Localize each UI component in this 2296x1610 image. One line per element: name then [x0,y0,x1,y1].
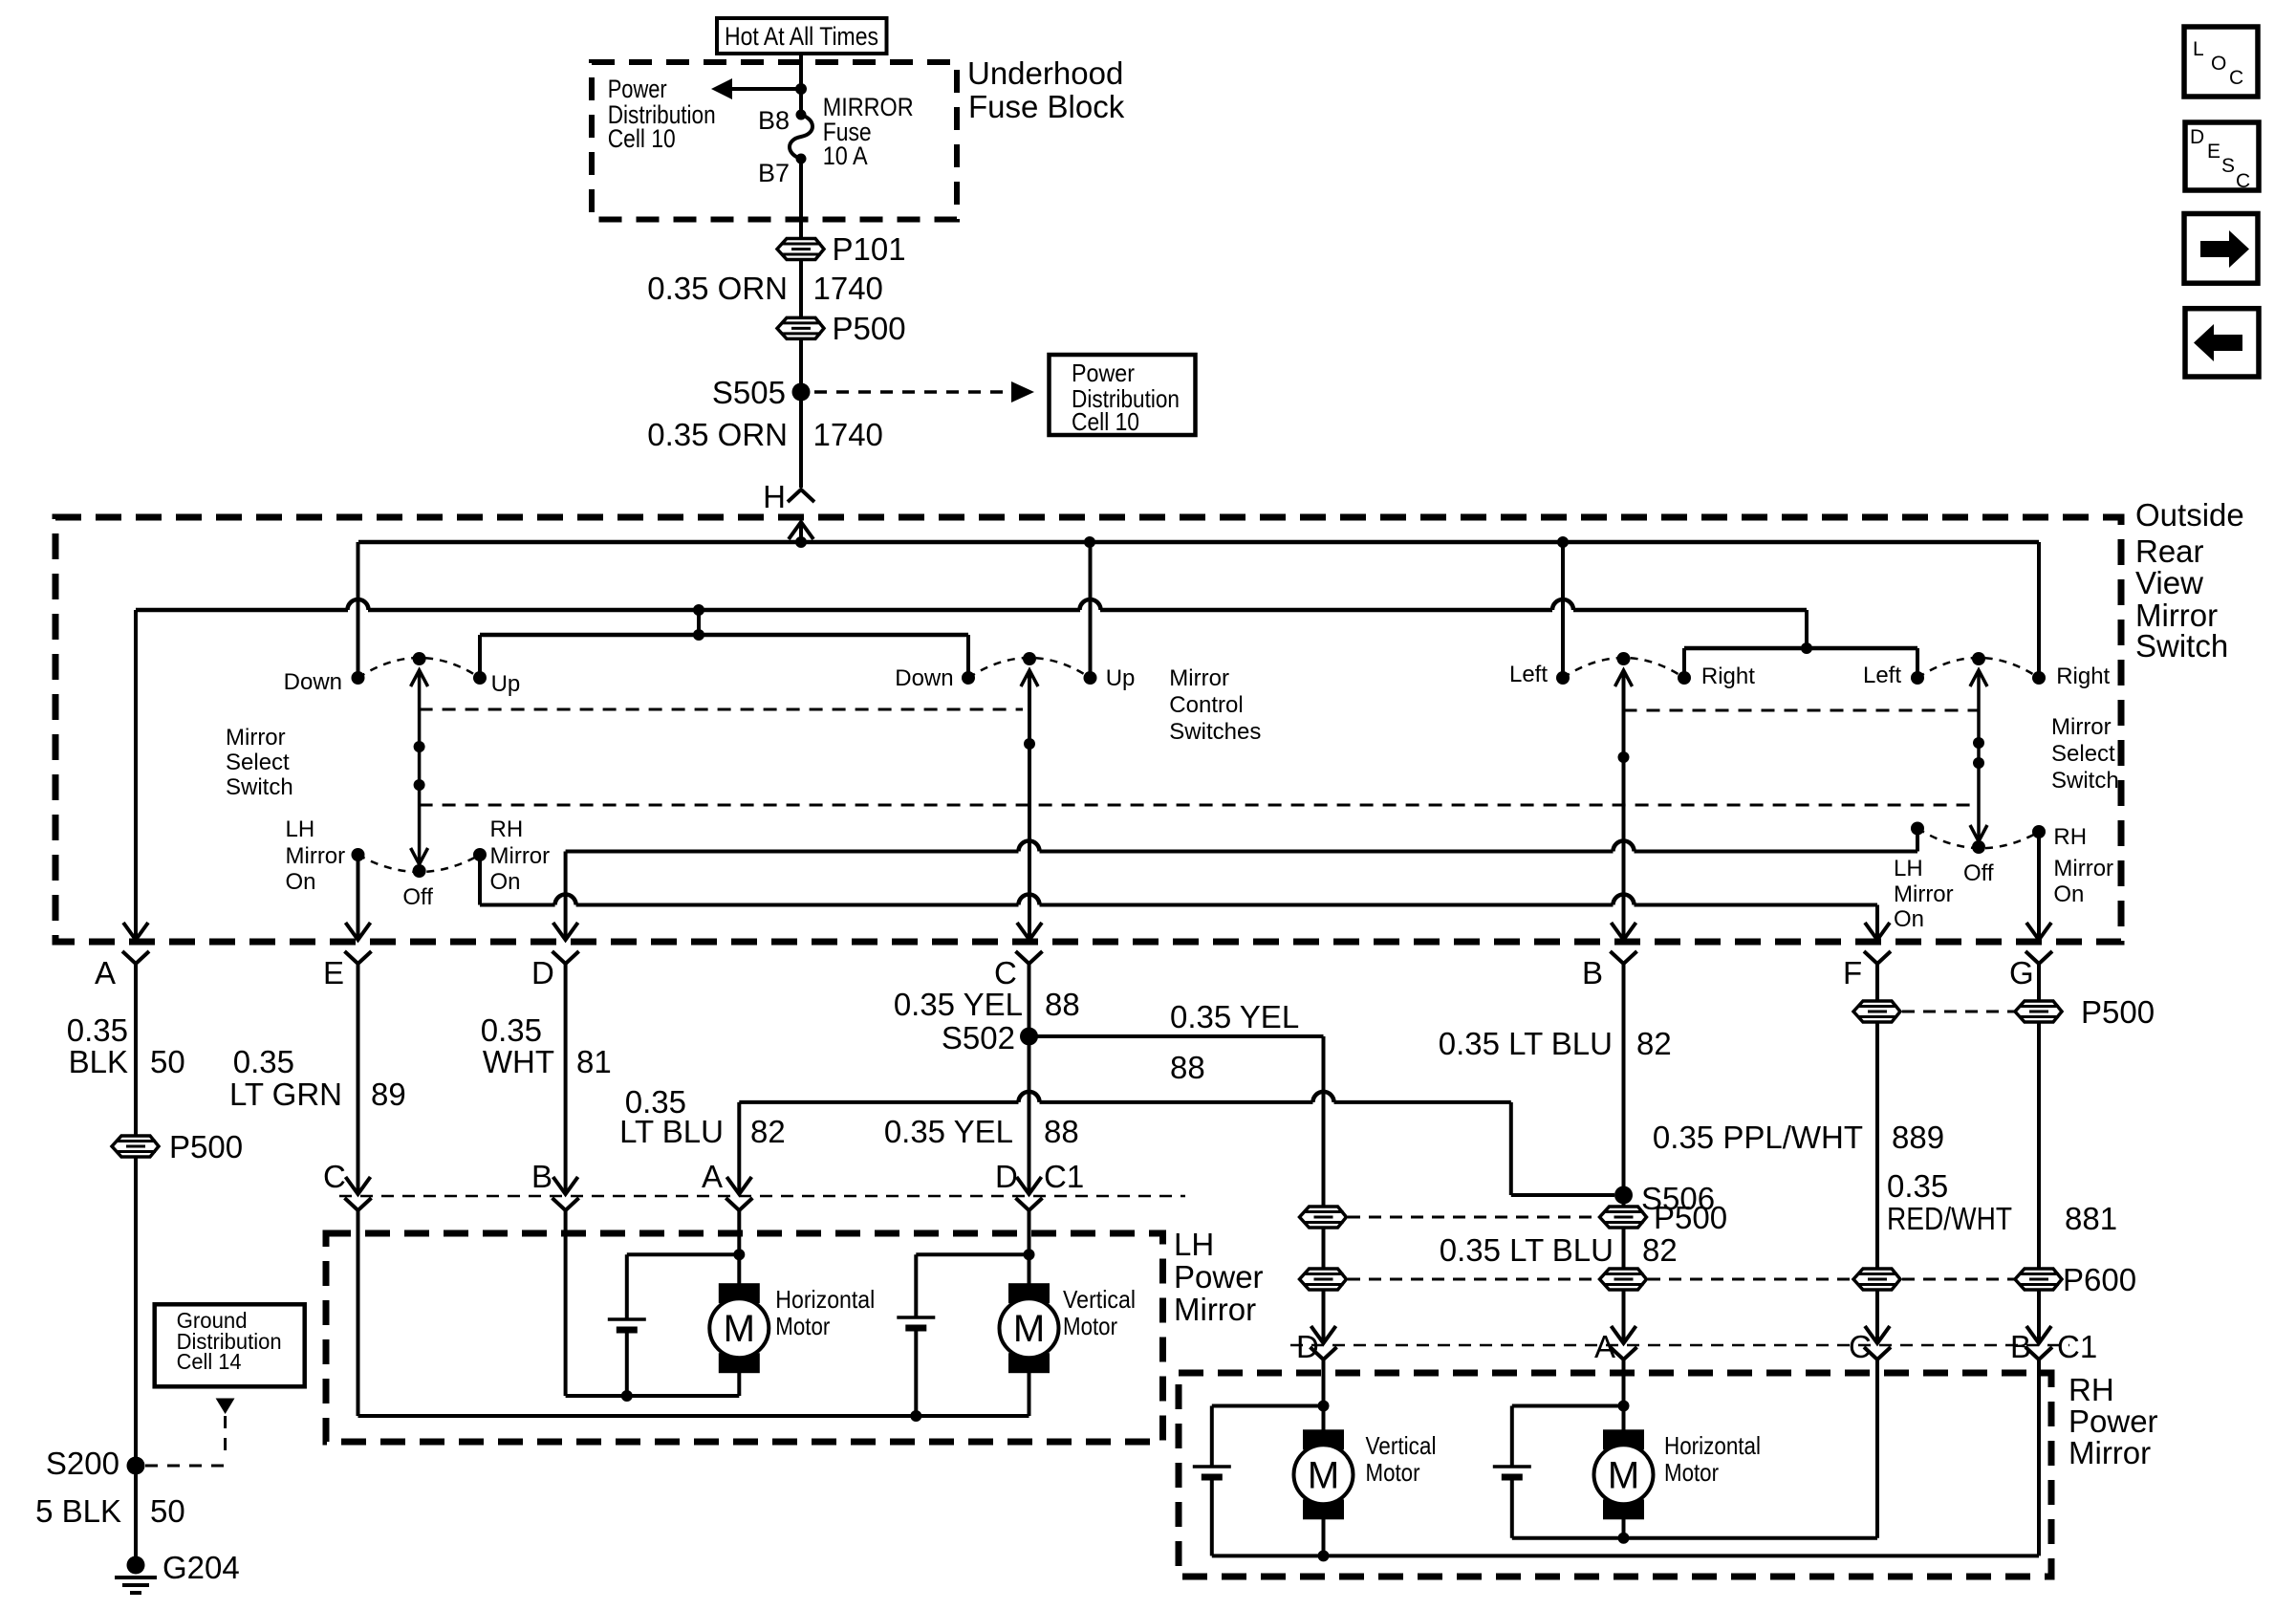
arrowhead at LH mirror pin A [726,1177,751,1194]
svg-text:E: E [2207,141,2220,163]
wire: supply rail right end down to Right terminal (sw4) [2037,542,2041,678]
svg-text:Underhood: Underhood [967,55,1123,91]
wire: RH pin D into box to vertical motor [1322,1360,1326,1430]
wire: LH mirror pin A riser [737,1102,741,1194]
svg-text:S505: S505 [712,375,786,410]
switch 2 dashed contact arc [968,658,1091,678]
motor circle RH vertical [1294,1445,1354,1504]
svg-text:Fuse Block: Fuse Block [968,89,1125,124]
switch 3 dashed contact arc [1563,658,1684,678]
node: junction on feed at branch [795,83,807,95]
power feed label box: Hot At All Times [717,18,887,54]
svg-text:S200: S200 [46,1446,119,1481]
svg-text:50: 50 [150,1493,185,1529]
svg-text:Power: Power [2069,1403,2158,1439]
svg-text:0.35 PPL/WHT: 0.35 PPL/WHT [1653,1120,1863,1155]
svg-text:Horizontal: Horizontal [1664,1431,1761,1460]
wire: RH battery2 bottom lead [1510,1477,1514,1538]
connector P500 on RH-D wire [1300,1207,1347,1228]
svg-text:P101: P101 [833,231,906,267]
wire: 5 BLK 50 from S200 to ground G204 [134,1466,138,1565]
svg-text:S: S [2221,155,2235,177]
svg-text:Mirror: Mirror [286,843,346,869]
svg-text:Cell 10: Cell 10 [1072,407,1139,436]
wire: riser supply rail down to Left terminal (sw3) [1561,542,1565,678]
wire: link bus down to Right terminal (sw3) [1682,648,1686,678]
switch 1 Off contact [413,864,426,878]
node: junction second rail to link bus [693,629,704,641]
wire: RH bottom bus (battery1 to pin B lead) [1212,1554,2039,1557]
node: junction supply to Up (control sw 2) [1084,536,1095,548]
node: RH vertical motor bottom junction [1318,1550,1330,1561]
wire: branch to LH battery2 top [916,1252,1029,1256]
switch 4 LH Mirror On terminal [1911,822,1924,836]
wire: D-line from pin D corner to LH Mirror On (sw4) [566,850,1019,854]
wire: F lead 0.35 PPL/WHT 889 from P500 to P600 [1875,1022,1879,1269]
node: shaft dot a (sw4) [1973,737,1984,749]
wire: pin C lead 0.35 YEL 88 down to splice S502 [1028,964,1031,1036]
svg-text:0.35 ORN: 0.35 ORN [647,417,788,452]
svg-text:P500: P500 [2081,994,2155,1030]
arrowhead at LH mirror pin B [553,1177,578,1194]
battery sensor RH horizontal [1493,1465,1531,1469]
svg-text:Right: Right [1701,664,1755,689]
svg-text:Up: Up [491,671,521,697]
wire segment 0.35 ORN 1740 (S505 to switch pin H) [799,392,803,488]
svg-text:G204: G204 [162,1550,240,1585]
wire: pin G lead down to P500 [2037,964,2041,1001]
switch 4 dashed contact arc [1917,658,2039,678]
svg-text:On: On [490,869,521,895]
arrowhead at pin A exit [123,923,148,940]
wire: S502 down to LH mirror pin D [1028,1036,1031,1194]
svg-text:Switches: Switches [1169,719,1261,745]
switch 1 actuator shaft double arrow [418,672,422,862]
svg-text:P600: P600 [2063,1262,2136,1297]
svg-text:Switch: Switch [2135,628,2228,664]
svg-text:On: On [2053,881,2084,907]
svg-text:A: A [702,1159,723,1194]
svg-text:RED/WHT: RED/WHT [1887,1201,2012,1236]
fuse F: MIRROR Fuse 10 A (between pins B8 and B7) [796,110,807,120]
wire: branch to RH battery1 top [1212,1404,1324,1408]
node: shaft dot b (sw1) [414,779,425,791]
switch 4 Left terminal [1911,671,1924,685]
motor body blocks RH vertical [1303,1429,1344,1449]
dashed gang link line lower (sw1-sw4) [420,804,1979,807]
wire: pin A riser down from second rail [134,610,138,940]
svg-text:View: View [2135,565,2203,600]
svg-text:On: On [286,869,316,895]
connector chevron at switch pin C [1016,951,1043,964]
svg-text:P500: P500 [833,311,906,346]
wire: LH vertical motor bottom lead [1028,1373,1031,1416]
switch 1 lower dashed contact arc [358,855,481,872]
svg-text:C: C [994,955,1017,990]
wire: RH vertical motor bottom lead [1322,1519,1326,1556]
wire: fuse B7 down to connector P101 [799,159,803,239]
splice S506 [1614,1186,1633,1205]
bus wire: link Right(sw3) to Left(sw4) [1684,646,1917,651]
svg-text:C: C [1849,1329,1872,1364]
wire: second rail down to junction on link bus (right) [1805,610,1809,648]
svg-text:89: 89 [371,1077,406,1112]
svg-text:RH: RH [2069,1372,2114,1407]
svg-text:Switch: Switch [2051,768,2119,794]
svg-text:LH: LH [1174,1227,1214,1262]
switch 1 dashed contact arc [358,658,481,678]
switch 1 RH Mirror On terminal [473,848,487,861]
switch 2 pivot contact [1023,652,1036,665]
wire: F-line from RH Mirror On (sw1) to pin F corner [480,903,555,907]
node: LH horizontal motor feed junction [733,1249,745,1260]
svg-text:M: M [1608,1454,1639,1496]
svg-text:P500: P500 [1654,1200,1727,1235]
connector P600 on RH-B wire [2015,1269,2062,1290]
svg-text:81: 81 [576,1044,612,1079]
wire: RH Mirror On (sw4) down to pin G [2037,832,2041,940]
wire: pin B lead 0.35 LT BLU 82 down to S506 [1622,964,1626,1217]
svg-text:1740: 1740 [813,417,883,452]
svg-text:82: 82 [1642,1232,1678,1268]
wire: LH pin B into box down to horizontal motor bus [564,1210,568,1396]
svg-text:LT BLU: LT BLU [619,1114,724,1149]
reference box: Power Distribution Cell 10 [1050,355,1196,435]
splice S200 [127,1457,145,1475]
switch 4 lower dashed contact arc [1917,829,2039,849]
arrowhead at RH mirror pin C [1865,1326,1890,1343]
svg-text:0.35: 0.35 [481,1012,542,1048]
wire: RH horizontal motor bottom lead [1622,1519,1626,1538]
svg-text:Outside: Outside [2135,497,2244,533]
splice S502 [1020,1028,1038,1046]
bus wire: link Up(sw1) to Down(sw2) [480,633,968,638]
svg-text:Select: Select [2051,741,2115,767]
svg-text:Down: Down [284,669,342,695]
dashed reference arrow from S505 to Power Distribution Cell 10 [814,390,1009,394]
battery sensor LH horizontal [608,1317,646,1321]
wire: LT BLU link from LH mirror pin A to S506 [739,1100,1018,1104]
wire: LH pin A into box to horizontal motor [737,1210,741,1284]
wire: branch to LH battery1 top [627,1252,740,1256]
svg-text:Vertical: Vertical [1063,1285,1136,1314]
switch 1 Up terminal [473,671,487,685]
connector chevron at switch pin B [1611,951,1637,964]
connector P600 on RH-C wire [1853,1269,1900,1290]
switch 2 Down terminal [962,671,975,685]
svg-text:D: D [1296,1329,1319,1364]
svg-text:Mirror: Mirror [1894,881,1954,907]
svg-text:Motor: Motor [775,1312,830,1340]
svg-text:88: 88 [1170,1050,1205,1085]
svg-text:M: M [1013,1308,1045,1350]
svg-text:M: M [724,1308,755,1350]
svg-text:B: B [2010,1329,2031,1364]
svg-text:5 BLK: 5 BLK [35,1493,121,1529]
svg-text:Mirror: Mirror [226,725,286,751]
switch 1 Down terminal [352,671,365,685]
bus wire: supply rail from pin H (upper) [358,540,2039,545]
svg-text:Power: Power [1072,359,1135,387]
svg-text:LT GRN: LT GRN [229,1077,342,1112]
arrowhead at pin B exit [1612,923,1636,940]
arrowhead at pin C exit [1017,923,1042,940]
arrowhead at LH mirror pin D [1017,1177,1042,1194]
battery sensor LH vertical [897,1316,935,1319]
motor circle LH horizontal [709,1298,769,1358]
svg-text:0.35 YEL: 0.35 YEL [1170,999,1299,1034]
svg-text:C: C [2229,67,2243,89]
arrowhead at RH mirror pin B [2026,1326,2051,1343]
arrowhead entering switch at H [789,522,813,539]
connector chevron at LH mirror pin B [552,1198,579,1210]
arrowhead at RH mirror pin A [1612,1326,1636,1343]
svg-text:50: 50 [150,1044,185,1079]
motor body blocks LH vertical [1008,1283,1050,1303]
wire: LH pin D into box to vertical motor [1028,1210,1031,1284]
svg-text:Power: Power [1174,1259,1264,1295]
svg-text:88: 88 [1044,1114,1079,1149]
connector chevron at LH mirror pin A [726,1198,752,1210]
svg-text:Mirror: Mirror [1169,665,1229,691]
wire: pin F lead down to P500 [1875,964,1879,1001]
svg-text:A: A [1594,1329,1615,1364]
svg-text:B8: B8 [758,106,790,135]
wire: RH Mirror On down to F-line [478,855,482,905]
svg-text:889: 889 [1892,1120,1944,1155]
wire: LH horizontal motor bottom lead [737,1373,741,1396]
svg-text:RH: RH [2053,824,2087,850]
svg-text:Switch: Switch [226,774,293,800]
switch 3 Right terminal [1678,671,1691,685]
svg-text:1740: 1740 [813,271,883,306]
svg-text:LH: LH [286,816,315,842]
legend box LOC [2184,27,2258,97]
node: LH battery1 bottom junction [621,1390,633,1402]
svg-text:10 A: 10 A [823,141,868,170]
svg-text:A: A [95,955,116,990]
wire: LH horizontal motor bottom bus [566,1394,740,1398]
svg-text:D: D [995,1159,1018,1194]
battery sensor RH vertical [1193,1465,1231,1469]
dashed gang link line sw3-sw4 [1624,709,1980,712]
svg-text:Cell 14: Cell 14 [177,1349,242,1374]
svg-text:E: E [323,955,344,990]
connector P500 on RH-A wire [1600,1207,1647,1228]
legend box DESC [2185,122,2259,190]
svg-text:Hot At All Times: Hot At All Times [725,22,878,51]
svg-text:88: 88 [1045,987,1080,1022]
splice S505 [792,383,811,402]
node: RH vertical motor feed junction [1318,1401,1330,1412]
wire: Hot At All Times feed down into fuse block [799,54,803,115]
svg-text:C: C [2236,170,2250,192]
svg-text:D: D [531,955,554,990]
connector chevron at RH mirror pin D [1310,1347,1337,1360]
svg-text:Off: Off [1963,860,1994,886]
switch 4 Off contact [1972,840,1985,854]
svg-text:82: 82 [1636,1026,1672,1061]
wire segment 0.35 ORN 1740 (P101 to P500) [799,259,803,318]
svg-text:Motor: Motor [1366,1458,1420,1487]
svg-text:Up: Up [1106,665,1136,691]
dashed connector link P500 (D-A) [1348,1216,1598,1219]
wire: branch arrow to Power Distribution Cell 10 [732,87,801,91]
Outside Rear View Mirror Switch dashed outline [55,517,2121,942]
arrowhead at RH mirror pin D [1311,1326,1336,1343]
svg-text:Motor: Motor [1664,1458,1719,1487]
connector P600 on RH-A wire [1600,1269,1647,1290]
svg-text:B7: B7 [758,159,790,187]
svg-text:Select: Select [226,750,290,775]
wire: LH battery1 bottom lead [625,1330,629,1396]
connector chevron at switch pin G [2025,951,2052,964]
svg-text:C1: C1 [1044,1159,1084,1194]
wire: riser supply rail down to Up terminal (sw2) [1089,542,1093,678]
motor circle LH vertical [1000,1298,1059,1358]
switch 3 Left terminal [1556,671,1570,685]
node: H feed junction on supply rail [795,536,807,548]
switch 4 pivot contact [1972,652,1985,665]
svg-text:S502: S502 [942,1020,1015,1055]
arrowhead at LH mirror pin C [346,1177,371,1194]
connector P500 on ground lead [112,1136,159,1157]
ground G204 [127,1556,145,1575]
svg-text:82: 82 [750,1114,786,1149]
wire: P500 down to splice S505 [799,338,803,392]
wire: RH pin C into box down to mid bus [1875,1360,1879,1538]
connector chevron at RH mirror pin B [2025,1347,2052,1360]
node: shaft dot (sw2) [1024,738,1035,750]
switch 1 LH Mirror On terminal [352,848,365,861]
dashed connector link P500 (F-G) [1902,1011,2014,1013]
node: junction on right link bus [1801,642,1812,654]
connector chevron at switch pin D [552,951,579,964]
svg-text:Left: Left [1509,662,1548,687]
wire: RH mid bus (battery2 to pin C lead) [1512,1536,1877,1540]
connector P101 (in-line) [777,239,824,260]
switch 1 pivot contact [413,652,426,665]
connector chevron at LH mirror pin C [345,1198,372,1210]
wire: RH battery1 bottom lead [1210,1477,1214,1556]
svg-text:0.35 LT BLU: 0.35 LT BLU [1439,1026,1613,1061]
svg-text:Cell 10: Cell 10 [608,124,676,153]
svg-text:LH: LH [1894,856,1923,881]
svg-text:Vertical: Vertical [1366,1431,1437,1460]
svg-text:Down: Down [895,665,953,691]
dashed gang link line sw1-sw2 [420,708,1023,711]
svg-text:Horizontal: Horizontal [775,1285,875,1314]
svg-text:C: C [323,1159,346,1194]
svg-text:0.35 YEL: 0.35 YEL [894,987,1023,1022]
wire: RH-D lead between P500 and P600 [1322,1228,1326,1269]
svg-text:0.35 LT BLU: 0.35 LT BLU [1440,1232,1614,1268]
switch 2 common shaft with arrow (wire to pin C) [1021,670,1038,686]
connector chevron at switch pin H [788,490,814,502]
wire: LH pin C into box down to common bus [357,1210,360,1416]
dashed connector link P600 [1348,1278,1598,1281]
svg-text:Right: Right [2056,664,2110,689]
connector P500 on F wire [1853,1001,1900,1022]
svg-text:C1: C1 [2057,1329,2097,1364]
svg-text:0.35 YEL: 0.35 YEL [884,1114,1013,1149]
switch 4 RH Mirror On terminal [2032,825,2046,838]
node: RH horizontal motor feed junction [1618,1401,1630,1412]
wire: RH-A lead between P500 and P600 [1622,1228,1626,1269]
motor circle RH horizontal [1594,1445,1654,1504]
svg-text:Mirror: Mirror [490,843,551,869]
svg-text:WHT: WHT [483,1044,554,1079]
wire: pin D lead 0.35 WHT 81 down to LH mirror pin B [564,964,568,1194]
svg-text:BLK: BLK [69,1044,128,1079]
wire: YEL jumper from S502 to RH mirror D lead [1029,1034,1324,1038]
svg-text:H: H [763,479,786,514]
svg-text:Off: Off [402,884,433,910]
node: shaft dot b (sw4) [1973,757,1984,769]
switch 3 common shaft with arrow (wire to pin B) [1615,670,1633,686]
node: LH vertical motor feed junction [1024,1249,1035,1260]
node: junction supply to Left (control sw 3) [1557,536,1569,548]
svg-text:Left: Left [1863,663,1901,688]
connector chevron at LH mirror pin D [1016,1198,1043,1210]
node: shaft dot a (sw1) [414,741,425,752]
LH Power Mirror dashed outline [326,1233,1163,1442]
bus wire: second rail (pin A rail) [136,608,348,613]
svg-text:RH: RH [490,816,524,842]
connector chevron at switch pin E [345,951,372,964]
switch 3 pivot contact [1617,652,1631,665]
motor body blocks LH horizontal [719,1283,760,1303]
motor body blocks RH horizontal [1603,1429,1644,1449]
svg-text:Mirror: Mirror [2069,1435,2151,1470]
node: shaft dot (sw3) [1618,751,1630,763]
svg-text:0.35: 0.35 [67,1012,128,1048]
svg-text:L: L [2193,38,2204,60]
wire: pin F riser [1875,905,1879,941]
svg-text:Control: Control [1169,692,1243,718]
reference box: Ground Distribution Cell 14 [155,1304,305,1386]
svg-text:F: F [1843,955,1862,990]
wire: link bus down to Up terminal (sw1) [478,635,482,678]
svg-text:Power: Power [608,75,667,103]
svg-text:0.35 ORN: 0.35 ORN [647,271,788,306]
legend box forward arrow [2184,214,2258,284]
RH Power Mirror dashed outline [1179,1373,2051,1577]
svg-text:Rear: Rear [2135,533,2204,569]
wires: P600 down to RH mirror pins [1322,1290,1326,1343]
node: RH horizontal motor bottom junction [1618,1533,1630,1544]
wire: RH pin B into box down to bottom bus [2037,1360,2041,1556]
wire: link bus down to Down terminal (sw2) [966,635,970,678]
wire: G lead 0.35 RED/WHT 881 from P500 to P600 [2037,1022,2041,1269]
wire: LH common bus (pin C to vertical motor) [358,1414,1029,1418]
wire: stub between second rail and link bus [697,610,701,635]
Underhood Fuse Block dashed outline [592,62,957,220]
wire: link bus down to Left terminal (sw4) [1916,648,1919,678]
legend box back arrow [2185,309,2259,377]
wire: pin A lead 0.35 BLK 50 down to P500 [134,964,138,1136]
wire: LH battery2 bottom lead [914,1328,918,1416]
wire: branch to RH battery2 top [1512,1404,1624,1408]
wire: RH pin A into box to horizontal motor [1622,1360,1626,1430]
switch 2 Up terminal [1084,671,1097,685]
wire: pin E lead 0.35 LT GRN 89 down to LH mirror pin C [357,964,360,1194]
svg-text:M: M [1308,1454,1339,1496]
wire: LH Mirror On down to pin E [357,855,360,940]
svg-text:On: On [1894,906,1924,932]
dashed reference link from S200 to Ground Distribution Cell 14 [216,1399,235,1415]
svg-text:B: B [531,1159,552,1194]
